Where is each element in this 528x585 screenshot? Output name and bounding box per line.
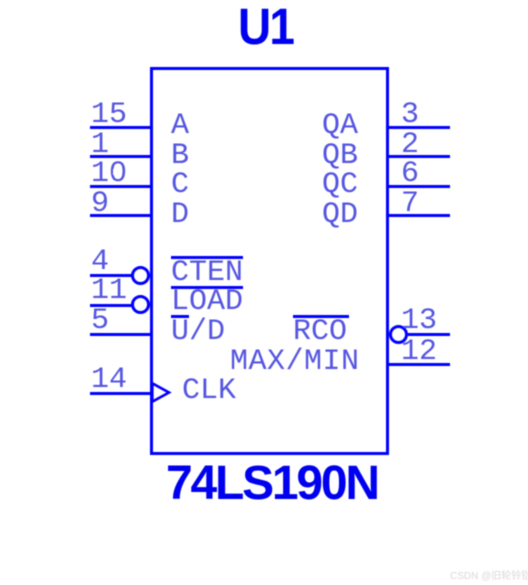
pin 15 wire	[90, 126, 150, 129]
pin name CLK	[182, 376, 236, 406]
pin name D	[171, 200, 189, 230]
pin name B	[171, 141, 189, 171]
pin name QD	[322, 200, 358, 230]
pin name QB	[322, 141, 358, 171]
pin 7 wire	[389, 214, 450, 217]
pin 13 active-low bubble	[389, 325, 408, 344]
pin 4 wire	[90, 274, 132, 277]
pin number 12	[401, 337, 437, 367]
pin number 14	[91, 365, 127, 395]
pin name U/D overline over U	[171, 315, 189, 318]
pin number 7	[401, 189, 419, 219]
pin number 2	[401, 130, 419, 160]
pin 5 wire	[90, 333, 150, 336]
pin number 5	[91, 306, 109, 336]
pin number 3	[401, 100, 419, 130]
pin 14 wire	[90, 392, 150, 395]
pin 2 wire	[389, 155, 450, 158]
pin 3 wire	[389, 126, 450, 129]
pin number 9	[91, 189, 109, 219]
pin name RCO	[293, 317, 347, 347]
pin 14 clock triangle	[151, 382, 173, 404]
pin number 11	[91, 276, 127, 306]
pin name QC	[322, 170, 358, 200]
pin 4 active-low bubble	[131, 266, 150, 285]
value label 74LS190N	[166, 460, 378, 508]
pin name RCO overline	[293, 315, 349, 318]
pin name U/D	[171, 317, 225, 347]
pin number 13	[401, 306, 437, 336]
pin number 6	[401, 159, 419, 189]
pin name CTEN overline	[171, 256, 243, 259]
pin 11 active-low bubble	[131, 295, 150, 314]
pin 11 wire	[90, 304, 132, 307]
pin name MAX/MIN	[230, 347, 360, 377]
pin number 4	[91, 247, 109, 277]
pin number 10	[91, 159, 127, 189]
pin name QA	[322, 111, 358, 141]
pin 13 wire	[408, 333, 450, 336]
pin number 1	[91, 130, 109, 160]
pin name C	[171, 170, 189, 200]
pin 1 wire	[90, 155, 150, 158]
pin 10 wire	[90, 185, 150, 188]
refdes U1	[238, 1, 293, 52]
pin name LOAD overline	[171, 286, 243, 289]
IC body U1 74LS190N	[150, 67, 389, 455]
pin name A	[171, 111, 189, 141]
pin name CTEN	[171, 258, 243, 288]
pin number 15	[91, 100, 127, 130]
pin name LOAD	[171, 287, 243, 317]
pin 12 wire	[389, 363, 450, 366]
watermark CSDN	[450, 567, 528, 582]
pin 6 wire	[389, 185, 450, 188]
pin 9 wire	[90, 214, 150, 217]
